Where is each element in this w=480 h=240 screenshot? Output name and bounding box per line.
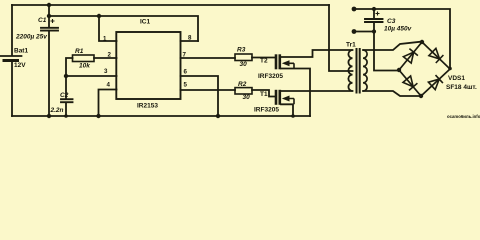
wire pin 7 to R3 xyxy=(181,57,236,59)
wire pin 3 xyxy=(66,75,117,77)
transformer Tr1 secondary winding xyxy=(363,50,367,91)
svg-text:T1: T1 xyxy=(260,91,268,98)
svg-text:C1: C1 xyxy=(38,17,47,24)
wire pin 5 to R2 xyxy=(181,89,236,91)
wire pin 6 to ground xyxy=(181,76,219,116)
wire secondary bottom to bridge bottom xyxy=(363,91,419,96)
capacitor C2 xyxy=(61,98,73,100)
svg-text:2.2n: 2.2n xyxy=(50,107,64,114)
svg-text:R3: R3 xyxy=(237,47,246,54)
svg-text:12V: 12V xyxy=(14,62,26,69)
svg-text:2200µ 25v: 2200µ 25v xyxy=(15,34,47,41)
diode VDS1 lower-right xyxy=(428,75,443,90)
bridge VDS1 diamond edges xyxy=(399,42,450,96)
svg-text:Tr1: Tr1 xyxy=(346,42,356,49)
wire center tap +12V xyxy=(329,5,353,71)
capacitor C1 xyxy=(41,27,58,29)
transformer Tr1 core xyxy=(357,49,360,93)
diode VDS1 lower-left xyxy=(403,76,417,90)
transistor T1 drain wire to primary bottom xyxy=(281,90,353,92)
wire C1 top lead xyxy=(48,5,50,27)
svg-text:R2: R2 xyxy=(238,81,247,88)
wire left branch battery top xyxy=(11,5,13,55)
resistor R1 xyxy=(73,55,95,62)
capacitor C3 xyxy=(365,18,383,20)
svg-text:10µ 450v: 10µ 450v xyxy=(384,26,412,33)
wire R3 to T2 gate xyxy=(252,57,275,59)
svg-text:T2: T2 xyxy=(260,58,268,65)
wire bottom ground rail xyxy=(12,115,310,117)
resistor R2 xyxy=(235,88,252,94)
diode VDS1 upper-right xyxy=(429,48,444,63)
transistor T2 drain wire xyxy=(281,50,353,57)
plus sign C3 xyxy=(376,12,380,16)
wire pin 2 to R1 xyxy=(94,57,117,59)
wire secondary top to bridge top xyxy=(363,42,420,50)
wire output plus rail xyxy=(354,9,450,68)
svg-text:IC1: IC1 xyxy=(140,19,151,26)
svg-text:2: 2 xyxy=(108,52,112,59)
wire C1 bottom lead xyxy=(48,31,50,116)
transistor T1 xyxy=(275,90,290,105)
svg-text:7: 7 xyxy=(183,52,187,59)
wire top rail +12V xyxy=(12,4,329,6)
svg-text:R1: R1 xyxy=(75,48,84,55)
IC U1 inner box IR2153 xyxy=(116,32,180,99)
svg-text:IRF3205: IRF3205 xyxy=(258,73,283,80)
wire left branch battery bottom xyxy=(11,61,13,116)
wire pin 1 xyxy=(99,16,117,41)
svg-text:5: 5 xyxy=(184,81,188,88)
svg-text:ocamo6иль.info: ocamo6иль.info xyxy=(447,114,480,119)
wire Vcc line to IC xyxy=(49,16,198,41)
svg-text:IR2153: IR2153 xyxy=(137,103,158,110)
wire output minus xyxy=(354,31,374,33)
transistor T2 source wire xyxy=(281,69,310,117)
svg-text:SF18 4шт.: SF18 4шт. xyxy=(446,84,477,91)
svg-text:8: 8 xyxy=(188,35,192,42)
battery Bat1 xyxy=(1,55,22,57)
svg-text:Bat1: Bat1 xyxy=(14,48,28,55)
wire C3 top lead xyxy=(373,9,375,18)
plus sign C1 xyxy=(51,19,55,23)
wire pin 8 xyxy=(181,40,199,42)
svg-text:4: 4 xyxy=(107,81,111,88)
svg-text:VDS1: VDS1 xyxy=(448,75,465,82)
svg-text:30: 30 xyxy=(240,61,248,68)
wire C3 bottom to bridge left corner xyxy=(374,23,399,71)
wire C2 bottom lead xyxy=(65,103,67,117)
svg-text:10k: 10k xyxy=(79,63,90,70)
resistor R3 xyxy=(235,54,252,61)
transistor T2 xyxy=(275,54,290,69)
svg-text:C2: C2 xyxy=(60,92,69,99)
wire R2 to T1 gate jog xyxy=(252,90,275,97)
svg-text:30: 30 xyxy=(243,94,251,101)
svg-text:1: 1 xyxy=(103,36,107,43)
transistor T1 source wire xyxy=(281,104,293,116)
diode VDS1 upper-left xyxy=(403,49,418,64)
wire pin 4 to ground xyxy=(99,90,117,117)
svg-text:C3: C3 xyxy=(387,18,396,25)
wire R1 left to C2 node xyxy=(66,58,73,99)
svg-text:3: 3 xyxy=(104,68,108,75)
svg-text:IRF3205: IRF3205 xyxy=(254,107,279,114)
pin digits xyxy=(103,35,192,89)
transformer Tr1 primary winding xyxy=(348,50,352,91)
svg-text:6: 6 xyxy=(184,69,188,76)
